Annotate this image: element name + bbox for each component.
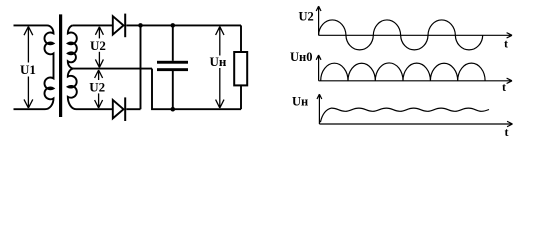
measurement arrow U2 lower [95, 70, 103, 108]
waveform plot 2 axes [316, 55, 512, 84]
wire: primary top rail [14, 24, 48, 26]
measurement arrow U1 [24, 27, 33, 108]
wire: VD2 cathode to join rail [126, 108, 140, 110]
svg-text:Uн: Uн [292, 94, 308, 108]
wire: load resistor top lead [240, 25, 242, 52]
wire: secondary top to diode VD1 anode [72, 24, 112, 26]
measurement arrow U2 upper [95, 27, 103, 68]
svg-text:U1: U1 [20, 62, 36, 77]
capacitor C1 bottom lead [172, 71, 174, 109]
transformer secondary lower winding U2 [68, 69, 77, 110]
svg-text:Uн: Uн [210, 54, 227, 69]
diode VD1 cathode bar [124, 14, 126, 38]
wire: center tap to node [74, 68, 152, 70]
label Un (load voltage) [209, 56, 228, 69]
diode VD2 cathode bar [124, 97, 126, 121]
diode VD1 triangle [113, 16, 124, 34]
svg-text:t: t [502, 80, 506, 94]
node: junction dot bottom rail / capacitor [171, 107, 176, 112]
label U1 [20, 63, 38, 77]
capacitor C1 top lead [172, 25, 174, 60]
waveform plot 2 curve: Un0 rectified [321, 63, 485, 81]
wire: load resistor bottom lead [240, 85, 242, 109]
wire: primary bottom rail [14, 108, 46, 110]
svg-text:U2: U2 [299, 9, 314, 23]
node: junction dot top rail / cathode rail [138, 23, 143, 28]
label U2 lower [89, 80, 108, 93]
waveform plot 3 curve: Un ripple [320, 108, 489, 122]
svg-text:t: t [504, 36, 508, 50]
capacitor C1 top plate [157, 61, 188, 64]
wire: cathode join rail (vertical) [140, 25, 142, 109]
wire: center tap down-leg and bottom output rail [152, 69, 241, 110]
transformer secondary upper winding U2 [68, 25, 77, 68]
node: junction dot top rail / capacitor [171, 23, 176, 28]
resistor Rn (load) [234, 52, 247, 85]
waveform plot 3 axes [317, 94, 513, 127]
measurement arrow Un [216, 27, 224, 108]
diode VD2 triangle [113, 100, 124, 118]
label U2 upper [89, 38, 108, 51]
svg-text:U2: U2 [90, 38, 106, 53]
svg-text:t: t [505, 125, 509, 139]
capacitor C1 bottom plate [157, 68, 188, 71]
wire: VD1 cathode to load top rail [126, 24, 241, 26]
svg-text:Uн0: Uн0 [290, 50, 312, 64]
waveform plot 1 axes [316, 6, 512, 38]
waveform plot 1 curve: U2 sine [319, 20, 483, 50]
wire: secondary bottom to diode VD2 anode [76, 108, 112, 110]
svg-text:U2: U2 [89, 80, 105, 95]
transformer T1 primary winding [44, 25, 53, 109]
transformer core [59, 14, 62, 117]
